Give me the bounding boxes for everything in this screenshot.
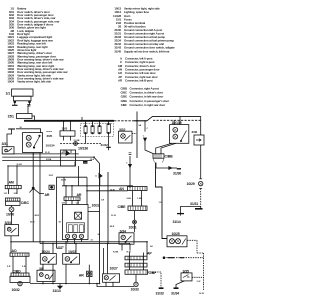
dashes 3/35 right bbox=[192, 276, 204, 278]
wires central unit bottom bbox=[68, 239, 82, 244]
wire vertical 33.2 roof light down bbox=[32, 153, 34, 242]
svg-text:30-R: 30-R bbox=[30, 221, 35, 223]
box C/BC lower bbox=[6, 201, 21, 205]
fusebox sub-unit wires bbox=[64, 121, 71, 141]
svg-text:31-SB: 31-SB bbox=[74, 140, 80, 142]
svg-text:30-W: 30-W bbox=[110, 190, 115, 192]
wires AN down bbox=[133, 191, 142, 207]
svg-text:C/BF: C/BF bbox=[121, 103, 128, 107]
lamp 10/33 bbox=[134, 275, 138, 287]
connector 31/43 circle bbox=[133, 211, 137, 233]
scattered tiny wire code labels bbox=[59, 124, 154, 248]
bus 30 solid segment bbox=[134, 120, 147, 122]
svg-text:C/BC: C/BC bbox=[21, 201, 30, 205]
connector C/BC bar bbox=[6, 198, 21, 201]
stub y248 bbox=[57, 247, 63, 249]
wire vertical 64 bbox=[63, 177, 65, 186]
wire bundle y157 bbox=[2, 156, 94, 158]
bus 30 thick left bbox=[24, 120, 114, 122]
svg-text:45-R: 45-R bbox=[35, 214, 40, 217]
wires AO down bbox=[13, 256, 26, 273]
dashed vertical right 203.5 bbox=[203, 253, 205, 291]
connector marks on 130 bbox=[129, 153, 132, 155]
svg-text:Connector, in right rear door: Connector, in right rear door bbox=[130, 103, 167, 107]
svg-text:AP: AP bbox=[147, 252, 152, 256]
svg-text:31/34: 31/34 bbox=[171, 291, 179, 295]
svg-text:2-R: 2-R bbox=[22, 266, 26, 268]
wire vertical node 137 bbox=[136, 112, 138, 159]
ground 31/33 bbox=[156, 288, 164, 295]
svg-text:30/5: 30/5 bbox=[47, 134, 53, 138]
svg-text:34-W: 34-W bbox=[199, 292, 204, 295]
reading lamp 10/23 bbox=[63, 254, 80, 265]
wire A-arrow lower bbox=[95, 174, 132, 187]
svg-text:AR: AR bbox=[77, 193, 82, 197]
bus bottom-mid y241.8 bbox=[11, 241, 147, 243]
reading lamp 10/24 bbox=[40, 254, 56, 265]
svg-text:31/33: 31/33 bbox=[156, 291, 164, 295]
junction dots buses bbox=[10, 241, 148, 244]
connector bar AO bbox=[10, 253, 29, 256]
junction dots bundle bbox=[7, 153, 94, 167]
svg-text:Connector, left B-post: Connector, left B-post bbox=[125, 79, 153, 83]
svg-text:1-SB: 1-SB bbox=[137, 198, 142, 200]
wire battery positive to fuse bbox=[27, 102, 30, 114]
dashed wire C/BF to ground 31/33 bbox=[148, 272, 162, 288]
svg-text:10/30: 10/30 bbox=[6, 212, 14, 216]
warning lamp 10/27 bbox=[103, 274, 120, 283]
svg-text:31/30: 31/30 bbox=[173, 172, 181, 176]
wires 10/135 bottom to C/BB bbox=[156, 143, 176, 154]
wire vertical 78.5 bbox=[78, 166, 80, 186]
wire horizontal y186 bbox=[62, 185, 99, 187]
bus tick bbox=[81, 117, 83, 121]
battery 1/1 bbox=[12, 89, 34, 103]
svg-text:AR: AR bbox=[79, 274, 84, 278]
connector bar C/BB bbox=[153, 154, 164, 163]
wires through bars bbox=[129, 242, 147, 270]
bus bottom y283.5 bbox=[30, 283, 100, 285]
svg-text:Vanity mirror light, left side: Vanity mirror light, left side bbox=[17, 80, 51, 84]
wire 10/25 right dashed bbox=[187, 240, 204, 253]
connector bar C/BE bbox=[128, 206, 147, 211]
bus bottom-mid y243.6 bbox=[40, 243, 129, 245]
diagonal to vertical 99.5 bbox=[94, 157, 100, 283]
junction dots y186 bbox=[65, 185, 88, 192]
svg-text:31/14: 31/14 bbox=[173, 220, 181, 224]
wire bundle y154 bbox=[2, 153, 79, 155]
svg-text:3-R: 3-R bbox=[62, 202, 66, 204]
glove box light 10/25 bbox=[167, 232, 187, 247]
battery ground terminal bbox=[12, 102, 18, 105]
terminal 30 pickup bbox=[7, 129, 15, 147]
wire C/BB long down bbox=[156, 163, 168, 239]
roof light unit 10/1 bbox=[23, 133, 43, 153]
supply rail 31/45 dashed with connector bbox=[60, 142, 101, 146]
wire bundle y166 bbox=[8, 162, 75, 166]
wires AR bar top bbox=[66, 186, 72, 197]
central unit lamps bbox=[65, 234, 83, 238]
wire 3/35 to ground 31/34 bbox=[176, 281, 185, 288]
dark dash segment on y161 bbox=[83, 162, 88, 164]
door switch 3/34 bbox=[119, 233, 134, 244]
warning lamp 10/30 bbox=[9, 205, 14, 211]
ground wire 31/14 31/31 bbox=[177, 207, 201, 216]
wire vertical 107.5 to 10/27 bbox=[104, 244, 108, 274]
wire fuse to bus bbox=[32, 116, 35, 121]
relay 10/135 bbox=[170, 125, 189, 144]
connector bar AP bbox=[125, 256, 147, 260]
svg-text:1/1: 1/1 bbox=[6, 91, 11, 95]
switch 3/35 bbox=[181, 273, 192, 281]
door switch 3/33 bbox=[5, 225, 19, 236]
central unit box bbox=[62, 205, 88, 240]
label 10/22 bbox=[88, 204, 100, 208]
svg-text:15/1: 15/1 bbox=[8, 115, 14, 119]
svg-text:AM: AM bbox=[9, 181, 14, 185]
ground bar 31/31 bbox=[195, 207, 203, 209]
wire AR circle bottom bbox=[88, 277, 90, 284]
fusebox sub-unit box bbox=[60, 131, 75, 136]
wire y177 bbox=[57, 176, 88, 178]
wires 10/24 bbox=[43, 242, 53, 284]
svg-text:3/36: 3/36 bbox=[192, 130, 198, 134]
wire 10/30 to 3/33 bbox=[11, 212, 13, 225]
connector bar AM bbox=[5, 185, 21, 188]
wire 30 to roof light bbox=[16, 129, 41, 133]
svg-text:C/BB: C/BB bbox=[165, 155, 174, 159]
wire 3/8 bottom bbox=[42, 282, 44, 284]
connector C upper bbox=[143, 135, 154, 153]
svg-text:5-BL: 5-BL bbox=[127, 198, 132, 200]
svg-text:31/31: 31/31 bbox=[190, 202, 198, 206]
wire right vertical 201.5 bbox=[200, 116, 202, 178]
wire 3/33 down bbox=[10, 236, 12, 253]
ground 31/34 bbox=[171, 288, 179, 295]
junction dots bottom bus bbox=[42, 283, 100, 285]
ground 31/13 bbox=[58, 284, 62, 289]
svg-text:5-R: 5-R bbox=[7, 266, 11, 268]
fuse F2 bbox=[91, 121, 94, 134]
door switch 3/32 bbox=[119, 131, 133, 143]
svg-text:15/3: 15/3 bbox=[62, 127, 68, 131]
svg-text:30-W: 30-W bbox=[61, 180, 66, 182]
svg-text:1-R: 1-R bbox=[159, 202, 163, 204]
tiny wire labels left bundle bbox=[17, 152, 67, 181]
svg-text:3/31: 3/31 bbox=[2, 142, 8, 146]
svg-text:10/32: 10/32 bbox=[12, 288, 20, 292]
svg-text:AR: AR bbox=[118, 79, 122, 83]
svg-text:31-R: 31-R bbox=[45, 152, 50, 154]
lamp 10/29 bbox=[187, 179, 203, 207]
tiny labels under AM bbox=[4, 193, 18, 195]
svg-text:R-DB: R-DB bbox=[46, 159, 52, 161]
fuse F1 bbox=[84, 121, 87, 144]
wire bundle y160.5 bbox=[2, 160, 92, 162]
tiny labels under 3/34 bbox=[113, 252, 131, 254]
junction AR split bbox=[30, 187, 45, 193]
wire central unit right bbox=[88, 211, 100, 213]
svg-text:10/22: 10/22 bbox=[92, 204, 100, 208]
svg-text:AR: AR bbox=[45, 193, 50, 197]
svg-text:10/136: 10/136 bbox=[78, 147, 88, 151]
svg-text:45-R: 45-R bbox=[110, 225, 115, 228]
wires AR bar bottom to unit bbox=[66, 200, 78, 204]
svg-text:10/29: 10/29 bbox=[187, 182, 195, 186]
wire vertical 87 bbox=[86, 177, 88, 204]
connector C lower bbox=[126, 162, 131, 167]
svg-text:10/31: 10/31 bbox=[129, 225, 137, 229]
wires 10/23 bbox=[66, 242, 89, 284]
connector A arrow upper bbox=[62, 151, 70, 156]
svg-text:1-R: 1-R bbox=[101, 199, 105, 201]
wires AM bottom bbox=[9, 189, 18, 194]
bus 30 dashed middle bbox=[114, 120, 134, 122]
fuse F3 bbox=[98, 121, 101, 134]
bus 30 right horizontal bbox=[147, 116, 201, 120]
wire bottom right bus y286.5 bbox=[97, 282, 134, 286]
relay unit 10/136 bbox=[61, 150, 76, 166]
bus 30 dashed right bbox=[153, 119, 201, 121]
svg-text:31/42: 31/42 bbox=[101, 143, 109, 147]
svg-text:3-W: 3-W bbox=[197, 281, 201, 283]
wires AM top bbox=[8, 166, 17, 185]
wires 10/135 top bbox=[174, 116, 180, 124]
tiny labels 45-R 30-R bbox=[30, 214, 40, 224]
svg-text:1-R: 1-R bbox=[76, 202, 80, 204]
connector bar C/BD bbox=[11, 273, 29, 276]
wires 3/34 bottom bbox=[122, 244, 130, 250]
dashed 3/32 to node bbox=[132, 133, 137, 135]
svg-text:S-GR: S-GR bbox=[17, 164, 23, 166]
wire C/BB to ground 31/30 bbox=[156, 163, 181, 170]
svg-text:10/134: 10/134 bbox=[46, 143, 55, 147]
svg-text:Supply rail via door switch, l: Supply rail via door switch, left front bbox=[124, 49, 169, 53]
svg-text:3-R: 3-R bbox=[14, 193, 18, 195]
connector bar AN bbox=[128, 187, 148, 191]
ground 31/42 bbox=[106, 147, 111, 150]
wire vertical 108 bbox=[107, 172, 109, 244]
svg-text:1-R: 1-R bbox=[4, 193, 8, 195]
svg-text:31/45: 31/45 bbox=[114, 49, 121, 53]
svg-text:31/13: 31/13 bbox=[53, 289, 61, 293]
connector box small near AR bbox=[49, 185, 54, 189]
svg-text:15-R: 15-R bbox=[90, 159, 95, 161]
central unit inner bank bbox=[67, 223, 85, 233]
wire vertical 130 bbox=[129, 156, 131, 188]
svg-text:10/25: 10/25 bbox=[172, 232, 180, 236]
svg-text:10/34: 10/34 bbox=[7, 80, 14, 84]
switch 3/36 bbox=[194, 135, 204, 145]
connector AR circle bbox=[87, 271, 92, 276]
wire y190.5 to AN bbox=[87, 190, 128, 192]
connector bar AR bbox=[64, 197, 80, 201]
tiny labels under AO bbox=[7, 266, 26, 268]
svg-text:C/BF: C/BF bbox=[149, 271, 158, 275]
svg-text:30-W: 30-W bbox=[111, 215, 116, 217]
svg-text:R-SB: R-SB bbox=[113, 252, 119, 254]
fuse F4 bbox=[107, 121, 110, 147]
dashed horizontal y257.7 bbox=[163, 257, 203, 259]
wire vertical 56.5 bbox=[56, 177, 58, 248]
dashes above 30/5 bbox=[47, 131, 53, 133]
wire vertical 145 C branch bbox=[144, 120, 146, 131]
connector bar middle right bbox=[125, 263, 147, 267]
svg-text:C/BE: C/BE bbox=[118, 205, 127, 209]
fusebox dashed outline bbox=[81, 124, 114, 137]
svg-text:AN: AN bbox=[119, 187, 124, 191]
svg-text:10/27: 10/27 bbox=[110, 267, 118, 271]
connector bar C/BF bbox=[125, 270, 148, 274]
door switch 3/31 bbox=[2, 147, 14, 154]
lock tailgate 3/8 bbox=[37, 270, 55, 281]
fuse 15/1 bbox=[17, 114, 33, 119]
svg-text:15-R: 15-R bbox=[49, 175, 54, 177]
svg-text:AO: AO bbox=[12, 249, 17, 253]
central unit inner contact box bbox=[75, 212, 82, 219]
lamp unit 10/32 box bbox=[10, 276, 30, 286]
svg-text:10/33: 10/33 bbox=[131, 288, 139, 292]
svg-text:R-W: R-W bbox=[127, 252, 131, 254]
